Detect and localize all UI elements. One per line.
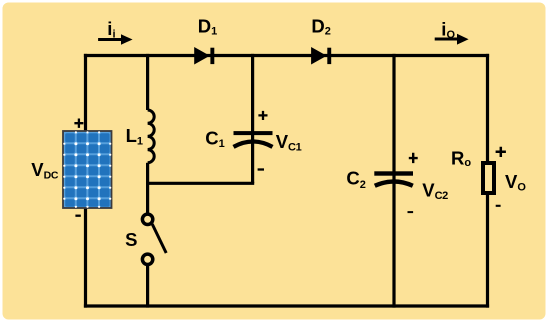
wire: left vertical (source branch) — [84, 54, 87, 308]
arrow ii — [98, 34, 133, 44]
capacitor C2 plates — [374, 171, 413, 186]
wire: L1/switch branch upper segment — [146, 54, 149, 110]
wire: top horizontal bus — [84, 54, 489, 57]
plus (Ro) — [496, 147, 506, 157]
wire: C1 branch vertical — [251, 54, 254, 183]
wire: right vertical (load branch) — [486, 54, 489, 308]
wire: L1 bottom to switch — [146, 163, 149, 213]
minus (panel) — [75, 215, 80, 217]
wire: switch to bottom bus — [146, 266, 149, 308]
plus (panel) — [74, 119, 83, 128]
minus (C1) — [258, 168, 264, 170]
plus (C1) — [258, 111, 267, 120]
minus (C2) — [408, 211, 414, 213]
wire: C2 branch vertical — [392, 54, 395, 308]
solar panel VDC body — [63, 131, 112, 208]
wire: middle horizontal (L1 node to C1 bottom) — [146, 182, 254, 185]
plus (C2) — [409, 153, 418, 163]
minus (Ro) — [496, 205, 501, 207]
resistor Ro body — [483, 163, 494, 193]
switch S blade — [152, 224, 166, 253]
diode D2 — [312, 48, 332, 64]
arrow iO — [435, 34, 469, 45]
inductor L1 coil — [148, 110, 155, 163]
switch S top contact — [142, 214, 152, 224]
capacitor C1 plates — [234, 131, 273, 147]
switch S bottom contact — [142, 254, 152, 264]
diode D1 — [195, 48, 215, 64]
svg-text:S: S — [125, 229, 137, 250]
wire: bottom horizontal bus — [84, 304, 489, 307]
